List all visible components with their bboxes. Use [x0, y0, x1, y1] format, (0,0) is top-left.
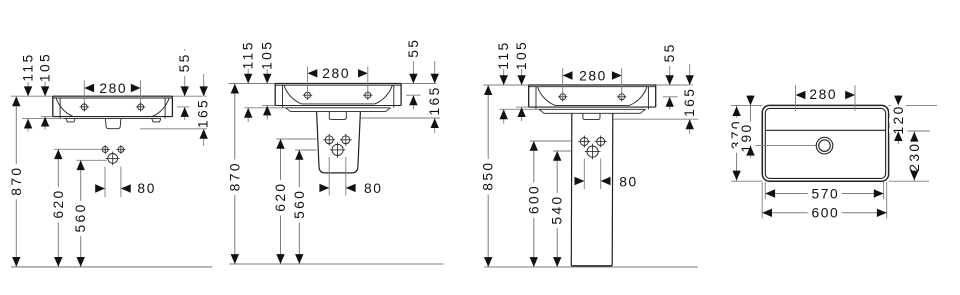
- svg-text:120: 120: [891, 104, 906, 134]
- svg-text:570: 570: [811, 186, 839, 201]
- svg-text:55: 55: [406, 38, 421, 58]
- svg-text:115: 115: [496, 40, 511, 69]
- svg-text:280: 280: [322, 66, 350, 81]
- svg-text:105: 105: [514, 40, 529, 70]
- svg-text:870: 870: [227, 161, 242, 191]
- svg-text:850: 850: [481, 160, 496, 190]
- svg-text:600: 600: [811, 206, 839, 221]
- svg-text:870: 870: [9, 165, 24, 195]
- svg-text:55: 55: [662, 42, 677, 62]
- svg-text:620: 620: [273, 181, 288, 211]
- svg-text:105: 105: [260, 40, 275, 70]
- svg-text:280: 280: [579, 68, 607, 83]
- svg-text:190: 190: [739, 122, 754, 152]
- svg-text:55: 55: [177, 52, 192, 72]
- svg-text:80: 80: [364, 181, 383, 196]
- svg-text:230: 230: [907, 141, 922, 171]
- svg-text:165: 165: [682, 87, 697, 117]
- svg-text:115: 115: [241, 40, 256, 69]
- svg-text:600: 600: [526, 184, 541, 214]
- svg-text:620: 620: [51, 188, 66, 218]
- svg-text:80: 80: [137, 181, 156, 196]
- svg-text:105: 105: [38, 52, 53, 82]
- svg-text:165: 165: [196, 98, 211, 128]
- svg-text:165: 165: [427, 85, 442, 115]
- svg-text:560: 560: [292, 189, 307, 219]
- svg-text:80: 80: [619, 175, 638, 190]
- svg-text:115: 115: [21, 52, 36, 81]
- svg-text:560: 560: [73, 202, 88, 232]
- svg-text:280: 280: [809, 87, 837, 102]
- svg-text:280: 280: [99, 81, 127, 96]
- svg-text:540: 540: [550, 194, 565, 224]
